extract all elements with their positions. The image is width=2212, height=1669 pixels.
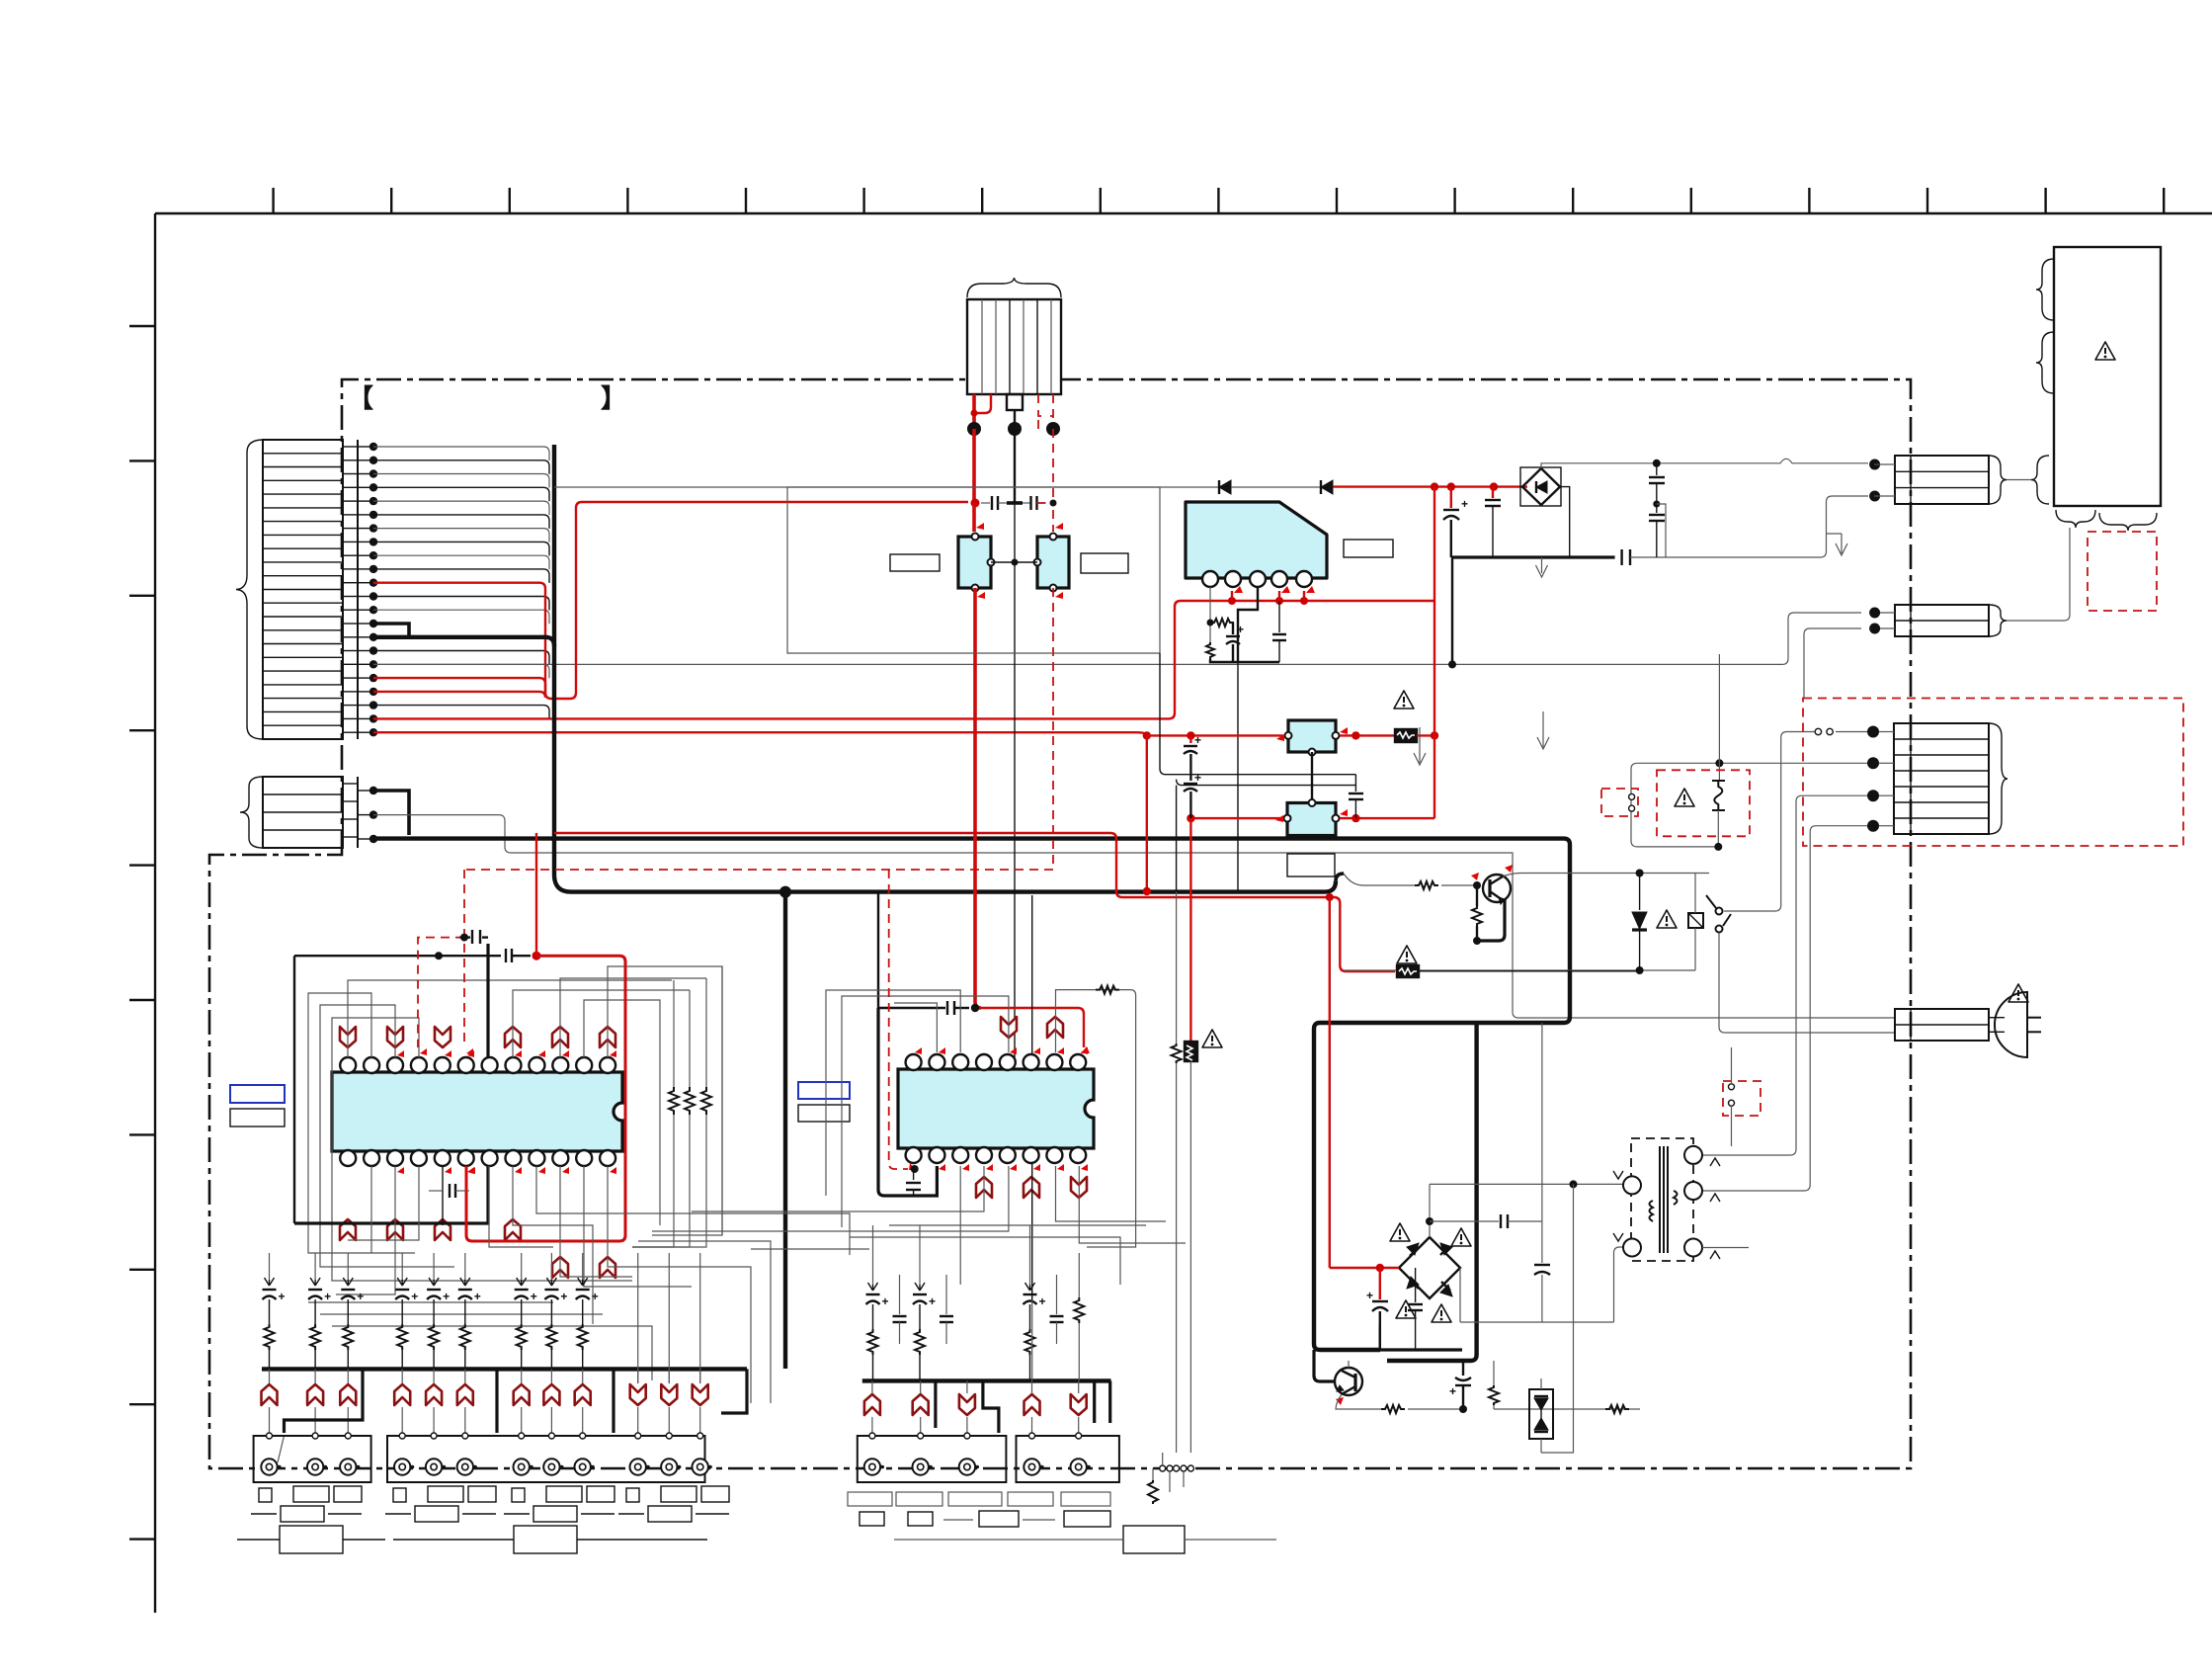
wires to center jacks	[872, 1380, 1079, 1433]
resistor R-q2b	[1489, 1361, 1499, 1409]
thick drops center	[936, 1380, 1110, 1433]
chevrons above IC2	[1001, 1017, 1017, 1038]
cap under IC2 pin1	[906, 1166, 921, 1196]
svg-text:+: +	[1039, 1294, 1046, 1308]
wire cnP3 down	[1702, 795, 1867, 1155]
junction diode top	[1636, 870, 1644, 877]
wire-end marks transformer	[1613, 1158, 1720, 1259]
chevrons bottom-left	[262, 1384, 708, 1405]
wire FR2 right	[1419, 970, 1640, 972]
wire cnP2 loop fuse	[1631, 654, 1867, 847]
red arrow m2b	[1055, 592, 1063, 599]
cap C-br2	[1408, 1268, 1423, 1350]
junction y744 x1161	[1143, 731, 1151, 739]
wires above IC2	[826, 895, 1136, 1300]
jacks bottom-center	[864, 1433, 1091, 1475]
fusible resistor FR3 (vertical)	[1185, 818, 1197, 1453]
connector CN-P (7-row)	[1894, 723, 1989, 834]
stub wires CN-P	[1879, 732, 1894, 826]
wire pot pin2 black down	[1014, 429, 1016, 503]
relay RY1	[1688, 874, 1703, 971]
junction q2	[1459, 1405, 1467, 1413]
wire CN-B to unit	[2007, 528, 2070, 621]
jack box 4	[1017, 1436, 1119, 1482]
wire 1470 down	[1451, 557, 1453, 664]
resistor R-pent-v	[1206, 642, 1214, 659]
Q2 wires	[1314, 1350, 1381, 1409]
wire y564 thin to CN-A2	[1630, 496, 1868, 557]
junction 1470/669	[1448, 660, 1456, 668]
IC1 pins top	[340, 1057, 615, 1073]
label box IC2 (blue)	[798, 1082, 850, 1099]
svg-text:+: +	[1194, 733, 1201, 747]
IC2 body (cyan DIP-16)	[898, 1069, 1094, 1148]
bridge right stem	[1459, 1268, 1461, 1322]
switch to AC wire	[1719, 933, 1895, 1033]
unit block (speaker box)	[2054, 247, 2161, 506]
label box IC1b	[230, 1109, 285, 1127]
wire dashed pot3 to mute2	[1052, 510, 1054, 532]
resistors right of IC1	[632, 978, 711, 1247]
IC reg-small-1 (cyan)	[1285, 720, 1340, 756]
bridge rectifier BR1	[1399, 1237, 1460, 1298]
wire reg1 bottom to reg2	[1311, 752, 1313, 802]
junction Q1e	[1473, 937, 1481, 945]
wire CN1 pin17 long gray	[373, 613, 1861, 664]
fusible resistor FR2	[1397, 965, 1419, 977]
wire bridge minus down	[1560, 487, 1570, 557]
svg-text:+: +	[1461, 497, 1468, 511]
wire CN2 pin2 long gray	[373, 815, 1895, 1018]
wire red reg2 right	[1340, 817, 1434, 819]
cap C-1648	[1622, 549, 1630, 565]
junction t1	[1570, 1180, 1578, 1188]
node cnP3	[1867, 790, 1879, 801]
resistor R-ic2top	[1096, 986, 1119, 994]
IC regulator (pentagon, cyan)	[1186, 502, 1327, 587]
red vertical x1205 with series ecaps	[1184, 733, 1201, 818]
thick audio bus bottom-center	[862, 1378, 1111, 1382]
junction red x987	[971, 499, 980, 508]
wire rail red to bridge	[1333, 485, 1527, 487]
svg-text:+: +	[560, 1290, 567, 1303]
svg-text:】: 】	[601, 383, 626, 413]
black pair to caps right of reg	[1160, 653, 1363, 892]
red arrows IC2	[915, 1047, 1088, 1171]
wire gray surround box	[787, 487, 1160, 653]
capacitor C-a	[981, 496, 1007, 510]
rotary encoder / pot	[967, 278, 1061, 394]
cap+res columns bottom-left	[263, 1253, 599, 1369]
svg-text:+: +	[1449, 1384, 1456, 1398]
wire red CN1 pin18	[373, 678, 545, 693]
bridge top stem	[1429, 1184, 1431, 1237]
ground arrow C2	[1827, 534, 1848, 555]
junction	[1207, 620, 1214, 626]
bridge rectifier BR-small	[1520, 467, 1561, 506]
junction x1373	[1352, 731, 1359, 739]
Q1 base resistor down	[1472, 885, 1482, 941]
wire CN2 pin1 (thick jog)	[373, 791, 409, 835]
svg-text:+: +	[1194, 771, 1201, 785]
red arrows reg1	[1276, 734, 1284, 741]
red branch reg1 down	[1146, 735, 1148, 891]
wire y1338	[1460, 1321, 1614, 1323]
junction r1512	[1490, 482, 1498, 490]
junction x1373b	[1352, 814, 1359, 822]
label box IC2b	[798, 1105, 850, 1122]
junction r1469	[1447, 482, 1455, 490]
dc return rail y564 (thick)	[1452, 555, 1615, 558]
ground arrow B	[1537, 711, 1549, 749]
chevrons below IC2	[976, 1177, 992, 1198]
svg-text:+: +	[324, 1290, 331, 1303]
pot pin3 dash jog	[1037, 416, 1039, 429]
brace unit left	[2031, 456, 2049, 504]
wire red CN1 pin22 (long)	[373, 732, 1147, 735]
wire pot pin1 red down	[972, 429, 976, 503]
caps x1677 pair	[1649, 463, 1666, 557]
svg-text:+: +	[474, 1290, 481, 1303]
junction r1452	[1431, 482, 1438, 490]
svg-text:+: +	[443, 1290, 450, 1303]
pot pin stubs	[974, 394, 1053, 429]
labels under center cluster	[848, 1492, 1110, 1527]
node cnP1	[1867, 726, 1879, 738]
ground arrow A	[1414, 727, 1426, 765]
wire relay loop bottom	[1345, 969, 1695, 971]
cap line y1236	[1430, 1214, 1542, 1228]
wire curl to base	[1344, 874, 1415, 885]
wire red CN1 pin21 (to regulator rail)	[373, 601, 1181, 718]
wire red CN1 pin11	[373, 583, 545, 693]
transistor Q2	[1335, 1368, 1362, 1405]
wire rail mid	[1231, 486, 1321, 488]
capacitor C-b	[1023, 496, 1047, 510]
wire between mute ICs	[991, 561, 1037, 563]
junction Q1 base	[1473, 881, 1481, 889]
jack box 1	[254, 1436, 371, 1482]
labels under left cluster	[251, 1486, 729, 1522]
warning tris bridge	[1390, 1223, 1410, 1241]
big dashed red box (power block)	[1803, 699, 2183, 847]
IC reg-small-2 (cyan)	[1284, 799, 1340, 836]
wire red rail to reg1	[1147, 734, 1283, 736]
board header brackets	[348, 383, 626, 413]
junction bus/branch	[779, 886, 791, 898]
big labels under left cluster	[237, 1526, 707, 1553]
wire transformer LB stub	[1702, 1247, 1749, 1249]
brace of CN2	[240, 777, 263, 848]
pins of CN1	[358, 443, 377, 737]
IC2 pins bottom	[906, 1147, 1087, 1163]
jacks bottom-left	[261, 1433, 712, 1475]
red vertical main x1452	[1434, 487, 1435, 818]
junction red 1161/902	[1143, 887, 1151, 895]
wires above IC1 left loops	[308, 980, 672, 1281]
thick from bus2	[1387, 1023, 1477, 1361]
warning tri FR3	[1202, 1030, 1222, 1047]
wire red mute1 down	[975, 588, 981, 1008]
testpoint chevrons above IC1	[340, 1027, 615, 1047]
resistor R-1190	[1172, 892, 1182, 1453]
black cap line y1020	[878, 1001, 969, 1015]
dashed red x900	[889, 870, 916, 1170]
junction x1205	[1187, 731, 1194, 739]
svg-text:+: +	[1366, 1289, 1373, 1302]
label box regIC	[1344, 540, 1393, 557]
cap under IC1	[429, 1166, 469, 1225]
node cnB1	[1869, 608, 1880, 619]
capacitor C-pent-el (electrolytic)	[1226, 623, 1244, 662]
diode D-b	[1321, 480, 1333, 494]
warning tri relay	[1657, 910, 1677, 928]
connector CN-B (2-row)	[1873, 605, 1989, 636]
wire q2 row	[1408, 1408, 1463, 1410]
svg-text:+: +	[279, 1290, 286, 1303]
red branch to bridge	[1329, 897, 1331, 1268]
circles at border crossing	[1160, 1465, 1194, 1471]
resistor R-pent-h	[1210, 619, 1234, 626]
wire bridge top right	[1541, 459, 1868, 468]
wire red FR1 to main red	[1417, 734, 1434, 736]
junction fuse bottom	[1714, 843, 1722, 851]
pin drops pentagon	[1210, 586, 1315, 662]
fusible resistor FR1	[1395, 729, 1417, 742]
cap C-1469 (electrolytic)	[1443, 487, 1468, 557]
wire gray long v1	[1541, 1023, 1543, 1221]
junction x1066	[1050, 500, 1057, 507]
cap columns bottom-center	[866, 1225, 1064, 1380]
label box reg2	[1287, 854, 1335, 876]
cap C-1512	[1485, 487, 1501, 557]
wire CN1 pin15 (thick to bus)	[373, 637, 554, 646]
connector CN-A (3-row)	[1874, 456, 1989, 504]
zener pair ZD1	[1529, 1378, 1553, 1453]
wire red pot1 to mute1	[972, 503, 976, 532]
red arrows reg2	[1275, 815, 1283, 822]
thick return under bridge	[1315, 1348, 1462, 1351]
IC mute-1 (cyan)	[958, 534, 995, 592]
red rail y828	[1190, 817, 1283, 819]
wire y1198 to transformer	[1430, 1183, 1624, 1185]
wire bracket under pentagon	[1210, 659, 1279, 662]
red dashed box (option)	[2088, 532, 2157, 611]
wire pot pin3 red dashed down	[1052, 429, 1054, 503]
red arrow m1b	[977, 592, 985, 599]
junction red 987/1020	[971, 1004, 979, 1012]
svg-text:+: +	[1237, 623, 1244, 636]
IC2 pins top	[906, 1054, 1087, 1070]
wire bus branch down	[783, 892, 787, 1369]
jack box 2	[387, 1436, 705, 1482]
ground arrow D	[1536, 557, 1548, 577]
node cnA2	[1869, 491, 1880, 502]
pins of CN2	[358, 787, 377, 843]
node cnB2	[1869, 624, 1880, 634]
junction black cap	[435, 952, 443, 960]
junction mid	[1012, 559, 1019, 566]
brace unit top-left	[2036, 259, 2054, 320]
junction red 1345	[1326, 893, 1334, 901]
transistor Q1	[1471, 865, 1513, 904]
diode D-relay	[1632, 874, 1647, 971]
red arrow m2	[1055, 523, 1063, 530]
thick L under IC2	[878, 1008, 937, 1196]
red rail y608	[1181, 600, 1434, 602]
junction loop	[1636, 966, 1644, 974]
svg-text:+: +	[882, 1294, 889, 1308]
wire red horizontal (bus to pot)	[582, 501, 968, 503]
junction pot red	[971, 410, 978, 417]
thick drops bottom-left	[278, 1369, 747, 1462]
junction red bridge	[1376, 1264, 1384, 1272]
small red dashed box jumper	[1601, 789, 1638, 816]
cap C-right	[1534, 1221, 1550, 1322]
wires chevron to jacks	[270, 1253, 700, 1433]
svg-text:+: +	[411, 1290, 418, 1303]
wire center cap link	[1007, 501, 1023, 505]
red net around IC1	[466, 833, 625, 1241]
label box R (blank)	[1081, 553, 1128, 573]
wire to Q1 base	[1441, 884, 1477, 886]
wire red reg1 to fuse-res	[1340, 734, 1395, 736]
IC1 body (cyan DIP-24)	[332, 1072, 622, 1151]
red junction 543	[533, 952, 541, 960]
bus (thick vertical + horizontal)	[554, 445, 1336, 892]
cap C-br1 (electrolytic)	[1366, 1268, 1388, 1350]
IC mute-2 (cyan)	[1034, 534, 1070, 592]
switch S1	[1706, 895, 1731, 933]
wire to zener	[1494, 1405, 1640, 1413]
testpoint chevrons below IC1	[340, 1219, 615, 1278]
dashed red net IC1	[418, 870, 1053, 1055]
node cnP2	[1867, 757, 1879, 769]
fuse F1 (red dashed box)	[1657, 770, 1750, 847]
brace of CN1	[236, 440, 263, 739]
red arrow m1	[976, 523, 984, 530]
wire pentagon out down	[1237, 662, 1239, 892]
wire 7conn dot1 to switch	[1836, 731, 1867, 733]
warning tri FR2	[1397, 946, 1417, 963]
label box L (blank)	[890, 554, 940, 571]
label box bottom mid	[1123, 1526, 1185, 1553]
wire black x889	[877, 892, 879, 1008]
red to bridge	[1330, 1267, 1399, 1269]
connector CN1 (22-pin)	[263, 440, 358, 739]
connector CN2 (4-pin)	[263, 777, 358, 848]
bus end curl	[1336, 874, 1344, 881]
jack box 3	[858, 1436, 1007, 1482]
wire harness CN1 to bus	[373, 447, 549, 719]
brace CN-B right	[1989, 605, 2007, 636]
thick audio bus bottom-left	[262, 1367, 747, 1371]
junction x1205b	[1187, 814, 1194, 822]
svg-text:【: 【	[348, 383, 373, 413]
node cnP4	[1867, 820, 1879, 832]
wire CN1 pin14 (thick jog)	[373, 624, 409, 637]
wire pot2 through	[1014, 503, 1016, 562]
wire dashed mute2 down	[1052, 588, 1054, 870]
wire red CN1 pin19	[373, 502, 582, 699]
red arrows IC1 pins	[397, 1050, 616, 1174]
wire zener bottom	[1541, 1184, 1574, 1453]
brace unit mid-left	[2036, 332, 2054, 393]
junction dash 925	[911, 1165, 919, 1173]
black cap net above IC1	[294, 930, 531, 1223]
resistor V below border	[1148, 1453, 1184, 1504]
brace CN-A right	[1989, 456, 2007, 504]
warning tri unit	[2095, 342, 2115, 360]
resistor R-base	[1415, 881, 1438, 889]
svg-text:+: +	[592, 1290, 599, 1303]
resistor col 1092	[1074, 1253, 1084, 1380]
AC plug	[1989, 992, 2041, 1057]
link wire to unit	[2007, 479, 2031, 481]
node pot-1	[967, 422, 981, 436]
wires above IC1 right	[513, 966, 722, 1235]
svg-text:+: +	[357, 1290, 364, 1303]
connector AC inlet	[1895, 1009, 1989, 1041]
diode D-a	[1219, 480, 1231, 494]
svg-text:+: +	[531, 1290, 537, 1303]
wires below IC2	[652, 1166, 1186, 1285]
node pot-2	[1008, 422, 1022, 436]
chevrons bottom-center	[864, 1394, 1087, 1415]
junction 1677	[1653, 459, 1661, 467]
Q1 collector wire	[1503, 874, 1709, 877]
junction t2	[1426, 1217, 1434, 1225]
cap C-q2 (electrolytic)	[1449, 1361, 1471, 1409]
board outline (dash-dot)	[209, 379, 1911, 1468]
svg-text:+: +	[929, 1294, 936, 1308]
jumper box mid	[1723, 1047, 1761, 1146]
transformer T1	[1623, 1138, 1702, 1261]
brace unit bottom1	[2056, 510, 2095, 528]
Q1 emitter down	[1477, 900, 1505, 941]
brace CN-P right	[1989, 723, 2007, 834]
red wire to IC2 pin8	[981, 1008, 1084, 1047]
label box IC1 (blue)	[230, 1085, 285, 1103]
node pot-3	[1046, 422, 1060, 436]
IC1 pins bottom	[340, 1150, 615, 1166]
node cnA1	[1869, 459, 1880, 470]
capacitor C-pent-2	[1272, 601, 1286, 662]
junction x1452 y744	[1431, 731, 1438, 739]
line to label	[894, 1539, 1123, 1541]
wire cnP4 down	[1702, 826, 1867, 1191]
wire rail y493 gray	[554, 486, 1219, 488]
brace unit bottom2	[2099, 513, 2157, 531]
red long y843	[554, 833, 1395, 971]
wire up to transformer LB	[1614, 1247, 1625, 1322]
wire gray v 1044 down	[1031, 1300, 1033, 1380]
wires below IC1	[308, 966, 869, 1403]
warning tri FR1	[1394, 691, 1414, 709]
warning tri AC	[2008, 984, 2028, 1002]
wire CN-B feed2	[1804, 628, 1861, 698]
junctions on y608	[1228, 597, 1236, 605]
wire CN2 pin3 (thick main)	[373, 839, 1570, 1350]
junction dashed	[460, 934, 468, 942]
resistor R-q2	[1381, 1405, 1405, 1413]
